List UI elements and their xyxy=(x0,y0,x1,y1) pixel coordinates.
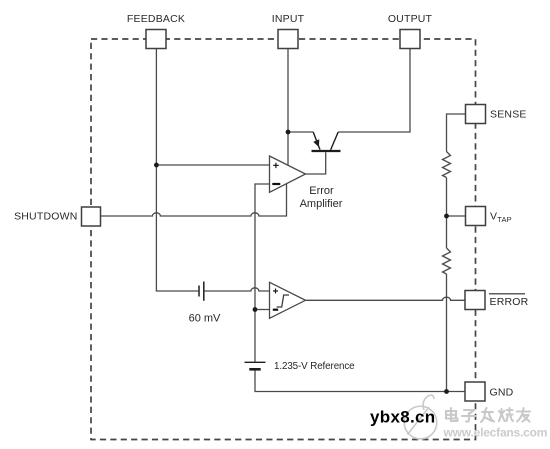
svg-text:1.235-V Reference: 1.235-V Reference xyxy=(274,361,355,372)
svg-text:60 mV: 60 mV xyxy=(189,313,221,325)
svg-text:SENSE: SENSE xyxy=(490,109,527,121)
svg-text:SHUTDOWN: SHUTDOWN xyxy=(14,211,77,223)
svg-text:OUTPUT: OUTPUT xyxy=(388,13,433,25)
svg-text:Error: Error xyxy=(309,185,334,197)
svg-text:INPUT: INPUT xyxy=(272,13,305,25)
svg-text:ybx8.cn: ybx8.cn xyxy=(370,407,435,426)
svg-text:www.elecfans.com: www.elecfans.com xyxy=(443,426,548,440)
svg-text:FEEDBACK: FEEDBACK xyxy=(127,13,185,25)
svg-text:Amplifier: Amplifier xyxy=(300,198,343,210)
svg-text:ERROR: ERROR xyxy=(490,296,529,308)
svg-text:GND: GND xyxy=(490,387,514,399)
